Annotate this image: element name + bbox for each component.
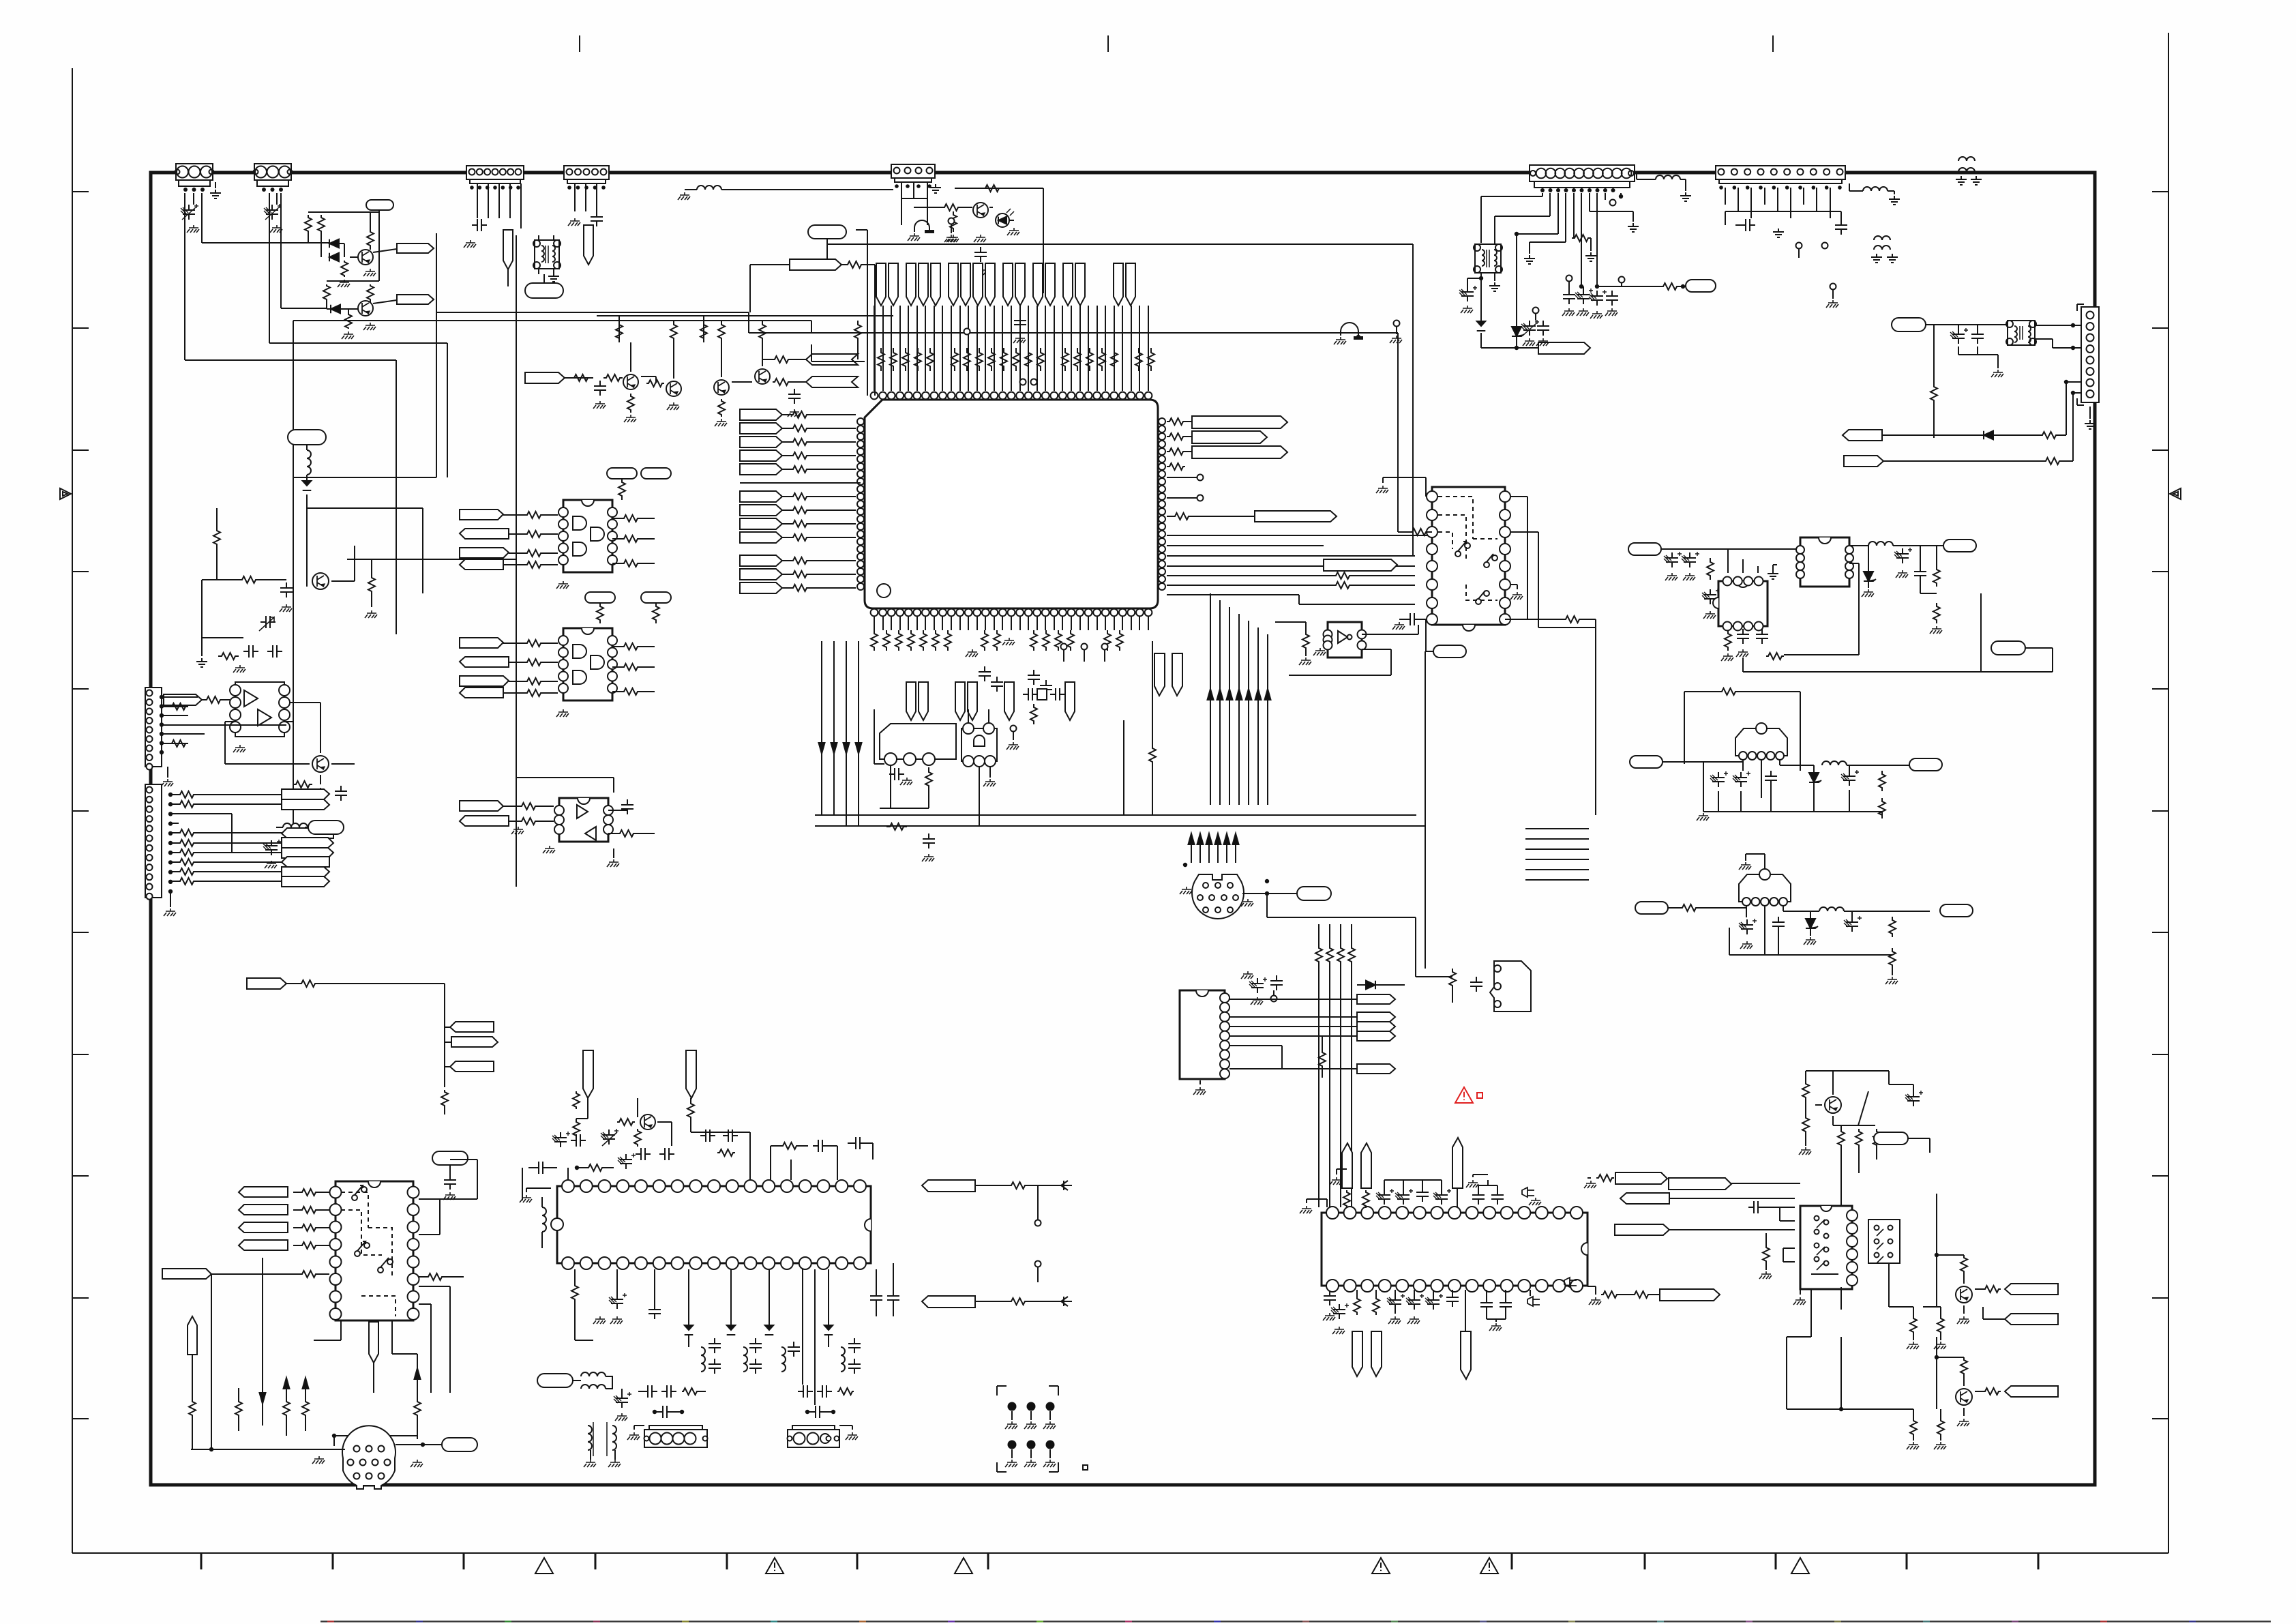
inductor L4 [1637,173,1686,191]
capacitor C17 [1563,289,1575,304]
connector CN7 [1716,166,1845,190]
connector CN11 [644,1426,708,1447]
resistor R77 [617,1119,635,1125]
ground [966,638,1015,657]
diode D1 [329,239,339,248]
frame tick left [72,810,89,812]
wire [1357,1290,1376,1296]
wire [1765,906,1778,955]
capacitor C23 [1971,325,1984,344]
resistor R58 [1449,969,1456,989]
ground [983,779,996,786]
IC U1 (main QFP) [857,392,1165,617]
resistor R98 [1910,1419,1917,1436]
flag NET21 [1843,430,1882,441]
wire [419,1199,440,1235]
resistor R93 [1937,1307,1944,1340]
capacitor C7 [974,247,987,262]
ground [338,280,350,287]
wire [979,767,980,826]
resistor R69 [419,1273,464,1280]
resistor R38 [170,703,187,747]
wire [1849,545,1868,546]
resistor R57 [1315,945,1355,965]
ground [1461,306,1473,313]
resistor R92 [1975,1286,2001,1293]
wire [1697,762,1882,821]
resistor R50 [1572,193,1591,251]
wire [1530,193,1566,254]
flag NET20 [1538,342,1590,354]
capacitor C6 [788,389,801,417]
wire [638,1391,706,1392]
inductor L3 [276,823,308,827]
resistor [179,849,195,856]
frame pointer right [2170,488,2181,499]
wire [543,274,545,283]
wire [1267,894,1416,977]
ground [312,1456,423,1467]
flag NET9c [445,1061,494,1072]
wire [341,308,358,310]
test point [1610,200,1616,206]
ground [1584,1178,1596,1188]
capacitor C24 [1399,613,1426,625]
ground [1680,192,1691,201]
wire [1729,928,1898,984]
wire [1889,1071,1913,1091]
diode D2 [329,253,339,262]
capacitor C57 [1905,1091,1923,1106]
wire [1037,1185,1039,1200]
capacitor C49 [870,1269,899,1305]
test point [1007,726,1019,750]
wire [216,508,218,580]
wire [749,332,1398,334]
diode D7 [1512,327,1524,348]
resistor R82 [571,1282,578,1303]
wire [307,508,423,593]
wire [1590,193,1633,222]
wire [1416,826,1452,1003]
plug PL6 [1342,1143,1352,1188]
frame tick left [72,1418,89,1419]
wire [2059,380,2081,435]
frame tick right [2152,1175,2168,1177]
ground [1665,573,1695,580]
test point [1035,1200,1041,1226]
resistor R61 [1766,653,1784,660]
resistor R14 [670,321,677,379]
flag NET30 [162,1269,329,1279]
diode D5 [1477,321,1486,331]
flag NET42 [1229,1064,1395,1074]
ground [1523,338,1549,346]
wire [1167,595,1415,604]
wire [520,183,522,228]
wire [1882,434,1934,436]
wire [293,233,436,477]
resistor row above U1 [878,348,1154,371]
wire [1319,965,1352,1207]
resistor R51 [1930,382,1937,405]
wire [975,1185,1072,1186]
resistor R15 [700,321,707,342]
ground [342,323,376,339]
inductor L1 [697,186,721,190]
resistor R46 [612,664,655,670]
resistor R9 [571,374,591,381]
wire [1530,1290,1531,1296]
ground [593,1316,623,1324]
frame tick bottom [987,1553,989,1569]
frame tick left [72,191,89,192]
wire [195,881,282,882]
frame tick right [2152,327,2168,329]
capacitor C31 [1710,771,1750,787]
wire [874,306,1148,391]
wire [740,482,861,484]
resistor R24 [1167,513,1191,520]
pill TP22 [1874,1132,1908,1145]
IC U3 (gate) [961,723,997,767]
wire [195,842,282,844]
resistor R52 [2039,432,2059,439]
resistor R6 [323,284,330,301]
pill TP21 [537,1374,573,1387]
wire [1766,563,1859,656]
wire [822,641,859,825]
diode D3 [331,305,340,314]
ground [464,240,476,248]
res small [1522,1187,1534,1197]
ground [1013,336,1026,343]
capacitor C53 [1472,1180,1504,1205]
wire [314,1320,341,1340]
resistor R63 [1718,688,1739,695]
frame tick bottom [332,1553,334,1569]
capacitor C16 [608,799,633,814]
flag NET27 [239,1205,329,1215]
wire [876,1263,893,1316]
wire [1412,244,1414,556]
resistor R78 [634,1129,641,1147]
wire [191,1449,345,1450]
ground [548,273,559,282]
connector CN10 [145,784,162,900]
resistor row below U1 [871,630,1123,651]
wire [1883,460,2042,462]
wire [880,791,929,808]
plug PL3b [369,1322,378,1363]
capacitor C3 [472,219,487,231]
cap row2 [798,1385,854,1398]
wire [1511,532,1596,628]
wire [1668,906,1746,917]
trim ecap2 [601,1129,618,1146]
connector CN8 [2077,304,2099,405]
wire [1728,549,1758,573]
wire [1167,555,1415,557]
resistor [179,840,195,846]
resistor R79 [687,1102,694,1119]
pill TP13 [1628,543,1661,555]
wire [989,207,993,208]
wire [260,1258,266,1426]
resistor [179,791,195,798]
warning triangle b3 [955,1558,972,1574]
ground [1524,255,1535,264]
ground [365,610,377,618]
flag NET19 [460,816,509,826]
test point [1796,243,1828,259]
ground [233,665,245,673]
dot [1183,863,1269,883]
wire [955,188,1043,189]
resistor R16 [718,321,725,377]
resistor R60 [1725,630,1731,651]
resistor R49 [608,830,655,837]
capacitor C56 [1480,1290,1512,1312]
transistor Q3 [623,374,638,389]
arrow bus up 2 [1189,833,1239,863]
warning triangle red [1455,1087,1473,1103]
wire [1362,625,1418,634]
frame tick right [2152,932,2168,933]
diode D10 [1862,546,1876,597]
resistor R91 [1960,1255,1967,1284]
plug PL3 [188,1316,197,1355]
IC U12 (reg) [1735,723,1787,760]
resistor R86 [1601,1291,1650,1298]
frame left outer line [72,68,73,1553]
switch S2 [1484,554,1497,567]
resistor R97 [1937,1409,1944,1441]
wire [568,1166,579,1180]
wire [192,1355,193,1357]
diode D18 [824,1269,833,1335]
wire [516,778,614,793]
ecap [618,1153,636,1169]
plug connector P2 [1490,961,1531,1012]
red square [1477,1093,1482,1098]
ecap [609,1269,627,1309]
inductor L12 [743,1347,747,1372]
pill TP5 [308,821,344,834]
flag NET38 [1229,994,1395,1004]
inductor L6b [1956,157,1982,185]
resistor R29 [886,823,907,830]
resistor R27 [1030,704,1037,724]
plug PL8 [1452,1138,1463,1188]
resistor R75 [573,1119,580,1139]
wire [803,1269,815,1405]
capacitor C43 [848,1137,873,1160]
flag NET26 [239,1187,329,1197]
resistor R36 [284,722,312,788]
frame tick top [1107,35,1109,52]
flag NET34 [2005,1284,2058,1295]
ground [627,1426,644,1440]
pill TP6 [607,468,671,479]
wire [269,193,281,343]
switch S3 [1476,591,1489,604]
connector CN5 [891,164,935,188]
wire [815,814,1416,816]
wire [1581,193,1582,286]
wire [1844,911,1930,912]
resistor [179,868,195,875]
resistor R87 [1354,1296,1380,1315]
capacitor C40 [636,1148,674,1160]
transistor Q9 [312,756,329,772]
wire [450,172,466,173]
wire [1725,211,1841,225]
resistor R10 [603,374,623,381]
wire [750,265,790,312]
pill TP11 [1433,645,1466,658]
frame tick left [72,1054,89,1055]
capacitor C42 [813,1140,837,1180]
capacitor C41 [700,1130,738,1142]
ground [1721,649,1748,661]
plug PL4 [583,1050,593,1098]
trim ecap T1L [1459,278,1477,301]
IC U2 (reset) [880,724,956,765]
capacitor C14 [335,786,347,801]
capacitor C13 [243,645,282,658]
ground [556,581,569,589]
capacitor C33 [1841,765,1859,786]
resistor R37 [293,795,312,801]
capacitor C55 [1387,1292,1459,1310]
capacitor C5 [594,381,606,396]
wire [685,189,893,190]
schematic border [151,173,2095,1485]
ground [520,1188,551,1202]
resistor R59 [1707,558,1714,580]
resistor R66 [1889,917,1896,969]
wire [1889,1263,1913,1340]
wire [373,1363,374,1393]
capacitor C30 [1914,546,1926,581]
wire [202,699,230,700]
wire [621,342,631,378]
down arrows bus [819,743,862,754]
flag NET11 [460,529,558,539]
resistor R74 [577,1164,614,1171]
plug PL5 [686,1050,696,1098]
frame tick right [2152,688,2168,690]
ground [1585,252,1596,261]
wire [1467,276,1483,280]
IC U10 [1713,577,1768,631]
connector CN1 [175,164,214,192]
ecap [552,1132,570,1147]
diode D17 [765,1269,774,1335]
wire [1833,1071,1875,1125]
wire [607,848,619,867]
flag NET40 [1229,1022,1395,1031]
pill TP12 [1297,887,1331,900]
ground [1392,622,1405,630]
dash split [1840,1287,1842,1310]
frame tick right [2152,571,2168,572]
inductor L11 [689,1335,705,1372]
wire [168,793,173,894]
wire [1731,1183,1800,1184]
wire [269,343,447,477]
pill TP24 [1991,641,2025,655]
wire [1009,188,1043,293]
wire [539,235,554,274]
ground [1376,477,1426,497]
resistor R35 [205,696,222,703]
resistor R62 [1933,546,1940,623]
resistor R65 [1679,904,1699,911]
wire [914,207,972,208]
wire [167,767,168,778]
flag NET14 [460,638,558,648]
flag NET24 [922,1180,975,1192]
frame tick bottom [2038,1553,2040,1569]
wire [516,235,517,559]
pill TP20 [442,1438,477,1451]
wire [522,1168,523,1200]
transistor Q6 [755,369,770,384]
wire [1920,581,1942,634]
ground [1934,1305,1969,1349]
flag NET8 [247,978,286,989]
switch pins U17 [1815,1216,1829,1271]
frame tick bottom [726,1553,728,1569]
service points box [997,1386,1058,1472]
wire [1725,188,1830,218]
wire [1780,1207,1795,1221]
resistor R94 [1910,1316,1917,1334]
wire [419,1286,450,1393]
pill TP2 [525,283,563,298]
wire [597,315,893,316]
resistor R84 [1362,1190,1369,1208]
pill TP4 [288,430,326,445]
wire [1064,650,1105,662]
diode D8 [1984,431,1993,440]
frame bottom outer line [72,1552,2168,1554]
ground [511,827,555,853]
wire [1515,193,1558,326]
wire [185,360,396,634]
plug PL10 [1461,1331,1471,1379]
resistor R99 [1319,1036,1326,1078]
wire [968,709,990,778]
flag NET25 [922,1296,975,1308]
wire [748,312,749,333]
wire [286,984,445,1087]
inductor L14 [829,1335,845,1372]
flag NET33 [1615,1193,1669,1235]
warning triangle b4 [1372,1558,1390,1574]
diode D14 [1061,1297,1068,1306]
wire [170,814,282,853]
resistor R89 [1838,1129,1880,1148]
capacitor C46 [749,1338,762,1374]
ground [946,228,1019,242]
bottom scan color strip [320,1621,2271,1623]
wire [1481,333,1538,350]
capacitor C32 [1765,771,1777,786]
wire [1595,193,1599,289]
